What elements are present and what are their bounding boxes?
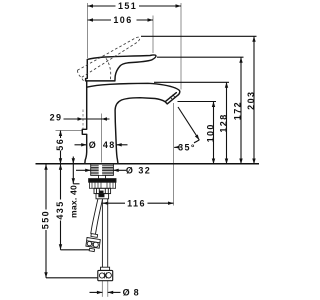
svg-text:Ø: Ø — [89, 140, 97, 150]
svg-text:32: 32 — [138, 166, 151, 176]
svg-text:106: 106 — [113, 15, 132, 25]
svg-text:100: 100 — [205, 123, 215, 142]
svg-text:8: 8 — [134, 288, 140, 298]
svg-text:435: 435 — [55, 200, 65, 219]
svg-text:Ø: Ø — [126, 166, 134, 176]
svg-text:151: 151 — [118, 1, 137, 11]
svg-text:128: 128 — [218, 113, 228, 132]
svg-text:35°: 35° — [178, 143, 196, 153]
svg-text:Ø: Ø — [123, 288, 131, 298]
svg-text:116: 116 — [127, 199, 146, 209]
svg-text:56: 56 — [55, 138, 65, 151]
svg-text:29: 29 — [50, 112, 63, 122]
svg-text:172: 172 — [232, 101, 242, 120]
svg-text:550: 550 — [40, 210, 50, 229]
svg-text:48: 48 — [103, 140, 116, 150]
svg-text:203: 203 — [246, 91, 256, 110]
svg-text:max. 40: max. 40 — [69, 185, 79, 218]
